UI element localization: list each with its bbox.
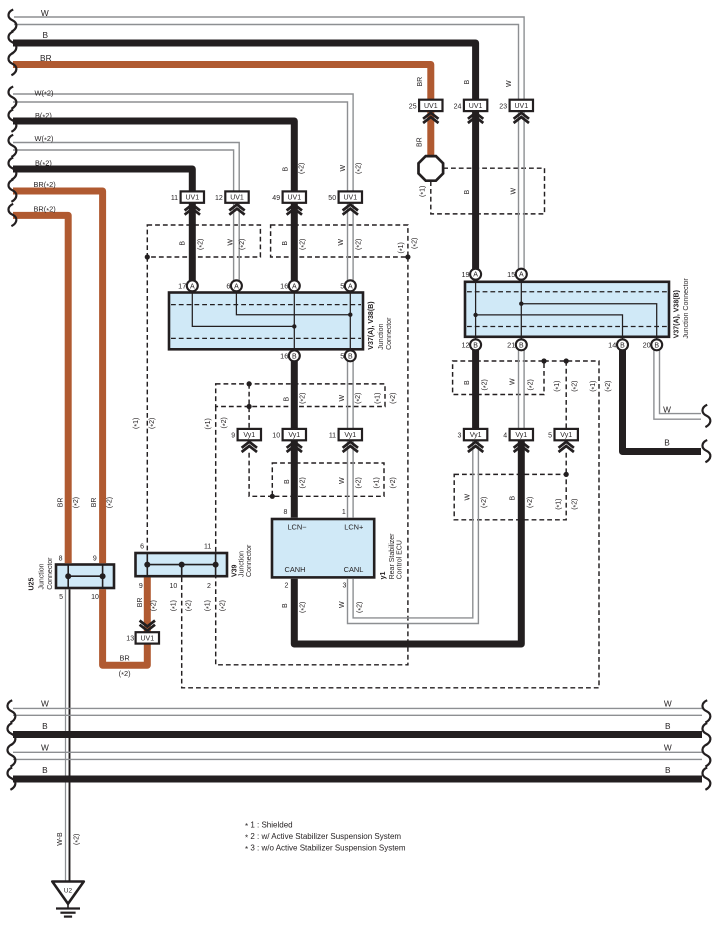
- svg-text:(*2): (*2): [481, 497, 489, 508]
- svg-text:(*2): (*2): [186, 600, 194, 611]
- svg-text:Junction: Junction: [39, 563, 46, 589]
- svg-text:B: B: [42, 721, 48, 731]
- svg-text:B(*2): B(*2): [35, 111, 52, 121]
- svg-text:A: A: [190, 283, 195, 290]
- svg-text:5: 5: [548, 432, 552, 439]
- svg-text:V37(A), V38(B): V37(A), V38(B): [368, 301, 375, 349]
- svg-text:Rear Stabilizer: Rear Stabilizer: [389, 533, 396, 580]
- svg-text:15: 15: [507, 270, 515, 279]
- svg-text:LCN+: LCN+: [344, 522, 363, 531]
- svg-text:16: 16: [280, 351, 288, 360]
- svg-text:UV1: UV1: [140, 635, 154, 642]
- svg-text:23: 23: [499, 103, 507, 110]
- svg-text:16: 16: [280, 281, 288, 290]
- svg-text:B: B: [282, 241, 289, 246]
- svg-text:11: 11: [171, 195, 178, 202]
- svg-text:(*2): (*2): [355, 393, 363, 404]
- svg-text:Vy1: Vy1: [344, 432, 356, 439]
- svg-text:Vy1: Vy1: [560, 432, 572, 439]
- svg-text:14: 14: [608, 340, 616, 349]
- svg-text:B: B: [282, 167, 289, 172]
- svg-text:(*2): (*2): [527, 379, 535, 390]
- svg-text:B: B: [620, 342, 625, 349]
- svg-text:B: B: [665, 765, 671, 775]
- svg-text:W: W: [664, 698, 672, 708]
- svg-text:17: 17: [178, 281, 186, 290]
- svg-text:(*1): (*1): [375, 393, 383, 404]
- svg-text:CANL: CANL: [344, 565, 364, 574]
- svg-text:B: B: [292, 353, 297, 360]
- svg-text:B: B: [43, 30, 49, 40]
- svg-text:(*2): (*2): [73, 834, 81, 845]
- svg-text:1: 1: [342, 509, 346, 516]
- svg-text:BR: BR: [91, 498, 98, 508]
- svg-text:B: B: [348, 353, 353, 360]
- svg-text:UV1: UV1: [185, 195, 199, 202]
- svg-text:(*2): (*2): [355, 163, 363, 174]
- svg-text:B: B: [284, 479, 291, 484]
- svg-text:(*1): (*1): [419, 186, 427, 197]
- svg-text:11: 11: [204, 544, 211, 551]
- svg-text:W: W: [340, 165, 347, 172]
- svg-text:B: B: [180, 241, 187, 246]
- svg-text:U2: U2: [64, 887, 73, 894]
- svg-text:BR: BR: [416, 137, 423, 147]
- svg-text:Control ECU: Control ECU: [397, 540, 404, 579]
- svg-text:UV1: UV1: [514, 103, 528, 110]
- svg-text:(*2): (*2): [571, 498, 579, 509]
- svg-text:BR: BR: [417, 77, 424, 87]
- svg-text:W: W: [339, 477, 346, 484]
- svg-text:(*2): (*2): [73, 497, 81, 508]
- svg-text:(*2): (*2): [299, 393, 307, 404]
- svg-text:9: 9: [93, 555, 97, 562]
- svg-text:B: B: [519, 342, 524, 349]
- svg-text:5: 5: [340, 281, 344, 290]
- svg-text:B: B: [464, 380, 471, 385]
- svg-text:(*2): (*2): [221, 417, 229, 428]
- svg-text:* 1 : Shielded: * 1 : Shielded: [245, 821, 293, 831]
- svg-text:A: A: [292, 283, 297, 290]
- svg-text:(*2): (*2): [239, 239, 247, 250]
- svg-text:B: B: [282, 603, 289, 608]
- svg-text:W: W: [663, 404, 671, 414]
- svg-text:(*2): (*2): [605, 380, 613, 391]
- svg-text:49: 49: [272, 195, 280, 202]
- svg-text:(*2): (*2): [355, 477, 363, 488]
- svg-text:W(*2): W(*2): [35, 134, 54, 144]
- svg-text:(*2): (*2): [300, 239, 308, 250]
- svg-text:(*2): (*2): [299, 602, 307, 613]
- svg-text:(*2): (*2): [298, 163, 306, 174]
- svg-text:A: A: [473, 272, 478, 279]
- svg-text:13: 13: [126, 635, 134, 642]
- svg-text:B: B: [654, 342, 659, 349]
- svg-text:3: 3: [457, 432, 461, 439]
- svg-text:5: 5: [59, 594, 63, 601]
- svg-text:Connector: Connector: [246, 544, 253, 577]
- svg-text:9: 9: [231, 432, 235, 439]
- svg-text:W-B: W-B: [57, 832, 64, 846]
- svg-text:Junction: Junction: [378, 324, 385, 350]
- svg-text:B: B: [283, 397, 290, 402]
- svg-text:W: W: [227, 239, 234, 246]
- svg-text:UV1: UV1: [287, 195, 301, 202]
- svg-text:U25: U25: [29, 578, 36, 591]
- svg-text:50: 50: [328, 195, 336, 202]
- svg-text:21: 21: [507, 340, 515, 349]
- svg-text:* 2 : w/ Active Stabilizer Sus: * 2 : w/ Active Stabilizer Suspension Sy…: [245, 832, 401, 842]
- svg-text:(*1): (*1): [398, 242, 406, 253]
- svg-text:W: W: [41, 8, 49, 18]
- svg-text:6: 6: [140, 544, 144, 551]
- svg-text:B: B: [664, 438, 670, 448]
- svg-text:19: 19: [461, 270, 469, 279]
- svg-text:(*2): (*2): [197, 239, 205, 250]
- svg-text:W: W: [41, 698, 49, 708]
- svg-text:10: 10: [91, 594, 99, 601]
- svg-text:W: W: [41, 742, 49, 752]
- svg-text:BR: BR: [57, 498, 64, 508]
- svg-text:9: 9: [139, 583, 143, 590]
- svg-text:10: 10: [272, 432, 280, 439]
- svg-text:2: 2: [284, 582, 288, 589]
- svg-text:(*1): (*1): [205, 418, 213, 429]
- svg-text:* 3 : w/o Active Stabilizer Su: * 3 : w/o Active Stabilizer Suspension S…: [245, 844, 406, 854]
- svg-text:Vy1: Vy1: [470, 432, 482, 439]
- svg-text:(*2): (*2): [411, 238, 419, 249]
- svg-text:(*2): (*2): [300, 477, 308, 488]
- svg-text:Vy1: Vy1: [288, 432, 300, 439]
- svg-text:5: 5: [340, 351, 344, 360]
- svg-text:(*2): (*2): [527, 497, 535, 508]
- svg-text:BR: BR: [40, 53, 52, 63]
- svg-text:25: 25: [409, 103, 417, 110]
- svg-text:2: 2: [207, 583, 211, 590]
- svg-text:(*1): (*1): [170, 600, 178, 611]
- svg-text:A: A: [519, 272, 524, 279]
- svg-text:8: 8: [283, 509, 287, 516]
- svg-text:(*2): (*2): [107, 497, 115, 508]
- svg-text:4: 4: [503, 432, 507, 439]
- svg-text:BR(*2): BR(*2): [34, 180, 56, 190]
- svg-text:24: 24: [454, 103, 462, 110]
- svg-text:W: W: [506, 80, 513, 87]
- svg-text:Vy1: Vy1: [243, 432, 255, 439]
- svg-text:Junction: Junction: [238, 551, 245, 577]
- svg-text:(*1): (*1): [555, 498, 563, 509]
- svg-text:(*1): (*1): [590, 380, 598, 391]
- svg-text:BR: BR: [137, 598, 144, 608]
- svg-text:12: 12: [461, 340, 469, 349]
- svg-text:(*2): (*2): [357, 602, 365, 613]
- svg-text:3: 3: [342, 582, 346, 589]
- svg-text:Junction Connector: Junction Connector: [683, 278, 690, 339]
- svg-text:W: W: [339, 601, 346, 608]
- svg-text:UV1: UV1: [230, 195, 244, 202]
- svg-text:UV1: UV1: [469, 103, 483, 110]
- svg-text:B: B: [464, 80, 471, 85]
- svg-text:W(*2): W(*2): [35, 88, 54, 98]
- svg-text:W: W: [339, 395, 346, 402]
- svg-text:B: B: [42, 765, 48, 775]
- svg-text:W: W: [338, 239, 345, 246]
- svg-text:W: W: [465, 494, 472, 501]
- svg-text:6: 6: [226, 281, 230, 290]
- svg-text:(*2): (*2): [571, 380, 579, 391]
- svg-text:(*2): (*2): [482, 379, 490, 390]
- svg-text:10: 10: [170, 583, 178, 590]
- svg-text:UV1: UV1: [343, 195, 357, 202]
- svg-text:y1: y1: [380, 572, 387, 580]
- svg-text:(*2): (*2): [149, 418, 157, 429]
- svg-text:A: A: [348, 283, 353, 290]
- svg-text:B: B: [510, 496, 517, 501]
- svg-text:V37(A), V38(B): V37(A), V38(B): [673, 290, 680, 338]
- svg-text:CANH: CANH: [285, 565, 306, 574]
- svg-text:LCN−: LCN−: [287, 522, 306, 531]
- svg-text:B: B: [473, 342, 478, 349]
- svg-text:B(*2): B(*2): [35, 158, 52, 168]
- svg-text:W: W: [664, 742, 672, 752]
- svg-text:(*2): (*2): [355, 239, 363, 250]
- svg-text:W: W: [510, 188, 517, 195]
- svg-text:Vy1: Vy1: [515, 432, 527, 439]
- svg-text:Connector: Connector: [47, 557, 54, 590]
- svg-text:(*2): (*2): [390, 477, 398, 488]
- svg-text:12: 12: [215, 195, 223, 202]
- svg-text:(*2): (*2): [119, 669, 131, 679]
- svg-text:W: W: [509, 378, 516, 385]
- svg-text:(*1): (*1): [133, 418, 141, 429]
- svg-text:Connector: Connector: [386, 317, 393, 350]
- svg-text:8: 8: [59, 555, 63, 562]
- svg-text:(*1): (*1): [554, 380, 562, 391]
- svg-text:A: A: [234, 283, 239, 290]
- svg-text:BR(*2): BR(*2): [34, 205, 56, 215]
- svg-text:(*2): (*2): [390, 393, 398, 404]
- svg-text:20: 20: [643, 340, 651, 349]
- svg-text:BR: BR: [119, 653, 129, 662]
- svg-text:B: B: [665, 721, 671, 731]
- svg-text:11: 11: [329, 432, 336, 439]
- svg-text:(*1): (*1): [373, 477, 381, 488]
- svg-text:(*1): (*1): [204, 600, 212, 611]
- svg-text:UV1: UV1: [424, 103, 438, 110]
- svg-text:(*2): (*2): [219, 600, 227, 611]
- svg-text:(*2): (*2): [151, 600, 159, 611]
- svg-text:B: B: [464, 190, 471, 195]
